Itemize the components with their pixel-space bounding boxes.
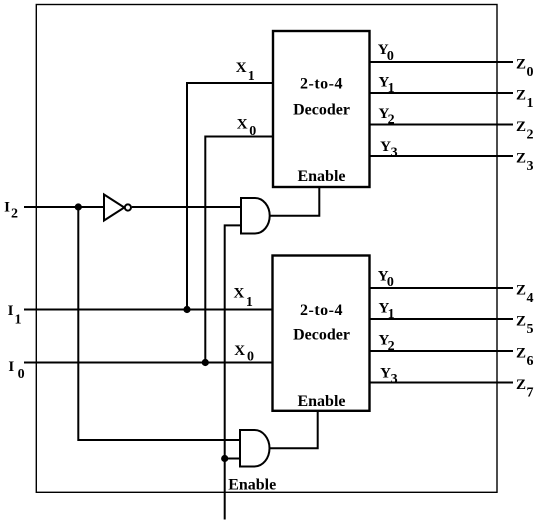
svg-text:2: 2 xyxy=(388,113,395,128)
svg-text:Y: Y xyxy=(380,366,391,382)
svg-text:0: 0 xyxy=(247,350,254,365)
svg-text:2: 2 xyxy=(527,127,534,142)
svg-text:Enable: Enable xyxy=(297,393,345,410)
svg-text:2: 2 xyxy=(388,339,395,354)
svg-text:Enable: Enable xyxy=(228,477,276,494)
svg-text:2-to-4: 2-to-4 xyxy=(300,302,343,319)
svg-text:Z: Z xyxy=(516,282,526,298)
svg-text:Z: Z xyxy=(516,56,526,72)
svg-text:Y: Y xyxy=(380,139,391,155)
svg-text:Z: Z xyxy=(516,345,526,361)
svg-text:Z: Z xyxy=(516,313,526,329)
svg-text:2-to-4: 2-to-4 xyxy=(300,75,343,92)
svg-text:1: 1 xyxy=(246,295,253,310)
svg-text:Z: Z xyxy=(516,119,526,135)
svg-text:Z: Z xyxy=(516,150,526,166)
svg-text:1: 1 xyxy=(388,307,395,322)
svg-text:2: 2 xyxy=(11,206,18,221)
svg-text:4: 4 xyxy=(527,291,534,306)
svg-text:3: 3 xyxy=(527,159,534,174)
svg-text:0: 0 xyxy=(249,124,256,139)
svg-text:0: 0 xyxy=(18,367,25,382)
svg-text:I: I xyxy=(8,359,14,375)
svg-text:X: X xyxy=(234,286,245,302)
svg-text:Decoder: Decoder xyxy=(293,101,350,118)
svg-text:Z: Z xyxy=(516,377,526,393)
svg-text:0: 0 xyxy=(527,65,534,80)
svg-text:3: 3 xyxy=(391,372,398,387)
svg-text:7: 7 xyxy=(527,385,534,400)
svg-text:X: X xyxy=(234,343,245,359)
svg-text:5: 5 xyxy=(527,322,534,337)
svg-text:3: 3 xyxy=(391,146,398,161)
svg-text:1: 1 xyxy=(248,69,255,84)
svg-text:1: 1 xyxy=(15,312,22,327)
svg-text:Z: Z xyxy=(516,87,526,103)
svg-text:0: 0 xyxy=(387,275,394,290)
svg-text:I: I xyxy=(4,200,10,216)
svg-text:Enable: Enable xyxy=(297,168,345,185)
svg-text:X: X xyxy=(236,60,247,76)
svg-text:Decoder: Decoder xyxy=(293,326,350,343)
svg-text:6: 6 xyxy=(527,354,534,369)
svg-text:1: 1 xyxy=(388,81,395,96)
svg-text:I: I xyxy=(8,303,14,319)
svg-text:X: X xyxy=(237,117,248,133)
svg-text:0: 0 xyxy=(387,49,394,64)
svg-text:1: 1 xyxy=(527,96,534,111)
